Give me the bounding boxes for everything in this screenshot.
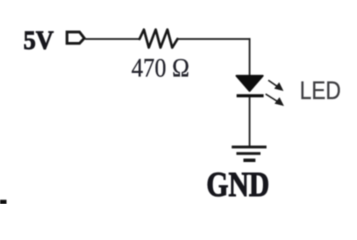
- svg-text:LED: LED: [300, 77, 341, 105]
- svg-text:470 Ω: 470 Ω: [131, 53, 189, 82]
- wire from 5V connector to resistor R1: [85, 38, 140, 40]
- LED D1 triangle (anode): [236, 76, 262, 91]
- wire from LED cathode to ground: [249, 97, 251, 147]
- LED emission arrow 1: [268, 80, 283, 91]
- ground GND symbol: [232, 147, 267, 160]
- svg-text:5V: 5V: [23, 25, 53, 55]
- wire corner down to LED anode: [249, 38, 251, 76]
- resistor R1 470 ohm zigzag: [140, 30, 178, 48]
- LED D1 cathode bar: [237, 94, 264, 97]
- connector 5V input pin symbol: [67, 32, 84, 43]
- page crop artifact bottom-left: [0, 200, 7, 204]
- LED emission arrow 2: [266, 94, 284, 106]
- svg-text:GND: GND: [206, 165, 269, 204]
- wire from resistor to corner: [178, 38, 251, 40]
